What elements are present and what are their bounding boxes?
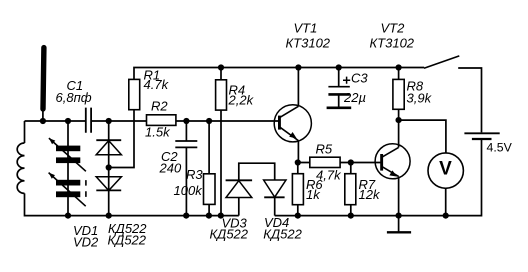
resistor R3	[204, 174, 216, 205]
gang dashed link	[85, 180, 87, 197]
junction dot VT2 base node	[348, 159, 354, 165]
svg-text:3,9k: 3,9k	[407, 91, 433, 106]
wire voltmeter bottom	[445, 188, 447, 215]
svg-text:1k: 1k	[306, 187, 321, 202]
battery GB1 short plate	[472, 138, 492, 140]
svg-text:4.7k: 4.7k	[144, 77, 170, 92]
svg-text:R2: R2	[151, 99, 168, 114]
wire main left	[25, 120, 86, 122]
trimmer C plates bottom pair	[56, 180, 80, 186]
antenna WA1	[40, 48, 46, 109]
trimmer arrowhead 2	[49, 173, 55, 179]
capacitor C3 plates	[328, 86, 349, 88]
transistor VT2 emitter arrow	[389, 170, 397, 176]
wire C3 leads	[338, 68, 340, 107]
capacitor C1 plates	[86, 108, 91, 133]
svg-text:12k: 12k	[359, 187, 381, 202]
resistor R2	[147, 115, 176, 126]
wire trimmer branch	[67, 121, 69, 216]
battery GB1 long plate	[464, 132, 499, 134]
svg-text:КД522: КД522	[210, 227, 249, 242]
svg-text:КД522: КД522	[263, 227, 302, 242]
svg-text:VD2: VD2	[73, 235, 99, 250]
junction dots top rail	[218, 64, 224, 70]
junction dots bottom right rail	[295, 213, 301, 219]
svg-text:C3: C3	[351, 71, 368, 86]
wire R1 jog to diode tap	[109, 110, 134, 168]
diode VD2	[96, 177, 121, 191]
junction dot VT1 emitter node	[295, 159, 301, 165]
ground bar under C3	[327, 106, 352, 109]
svg-text:V: V	[439, 158, 452, 179]
resistor R4	[216, 80, 227, 110]
trimmer C plates top pair	[56, 146, 80, 152]
junction dot diode tap	[106, 164, 112, 170]
wire bottom right rail to battery	[275, 140, 482, 216]
transistor VT1 emitter diagonal	[279, 127, 298, 141]
voltmeter PA1 circle	[428, 153, 463, 188]
trimmer C arrow 1	[49, 138, 86, 171]
svg-text:240: 240	[159, 161, 182, 176]
svg-text:КТ3102: КТ3102	[370, 36, 415, 51]
svg-text:22µ: 22µ	[343, 90, 366, 105]
resistor R1	[129, 79, 140, 109]
svg-text:6,8пф: 6,8пф	[56, 90, 92, 105]
svg-text:VT2: VT2	[381, 20, 406, 35]
wire R4 leads	[220, 68, 222, 216]
transistor VT1 circle	[274, 105, 311, 142]
trimmer C arrow 2	[49, 173, 86, 207]
capacitor C2 plates	[175, 141, 197, 147]
wire VD3 anode lead	[238, 198, 240, 216]
svg-text:VT1: VT1	[294, 20, 318, 35]
wire R7 leads	[350, 163, 352, 216]
wire VD3-VD4 bridge	[239, 163, 275, 180]
transistor VT2 circle	[375, 144, 410, 179]
wire voltmeter top	[399, 120, 446, 153]
diode VD3	[226, 179, 253, 181]
wire VD4 cathode lead	[274, 197, 276, 215]
wire left rail top	[24, 121, 26, 143]
transistor VT1 base bar	[278, 116, 281, 130]
wire VT1 collector	[297, 68, 299, 107]
resistor R7	[345, 174, 356, 205]
svg-text:КД522: КД522	[108, 232, 147, 247]
inductor L1	[17, 143, 24, 193]
svg-text:100k: 100k	[174, 183, 204, 198]
wire diode branch	[108, 121, 110, 216]
wire left rail bottom	[25, 193, 239, 215]
wire VT1 emitter	[297, 141, 299, 163]
wire VT2 collector	[398, 120, 400, 147]
junction dots bottom left rail	[65, 213, 71, 219]
wire R3 leads	[208, 121, 210, 216]
diode VD4	[264, 180, 286, 197]
svg-text:4.5V: 4.5V	[487, 141, 513, 155]
diode VD1	[96, 139, 121, 141]
resistor R6	[292, 174, 303, 205]
wire antenna lead	[42, 109, 44, 121]
plus sign of C3	[343, 77, 350, 84]
ground bar under VT2	[387, 231, 411, 233]
transistor VT1 collector diagonal	[279, 106, 298, 117]
trimmer arrowhead 1	[49, 138, 55, 144]
junction dot R8 bottom node	[396, 117, 402, 123]
ground stub at VT2 emitter	[398, 216, 400, 232]
wire R6 leads	[297, 163, 299, 216]
svg-text:R3: R3	[186, 167, 203, 182]
transistor VT2 emitter diagonal	[382, 166, 399, 176]
resistor R8	[393, 79, 404, 109]
resistor R5	[310, 157, 340, 167]
svg-text:2,2k: 2,2k	[228, 93, 255, 108]
switch SA1 lever	[424, 56, 459, 68]
svg-text:КТ3102: КТ3102	[286, 36, 331, 51]
svg-text:R5: R5	[316, 141, 333, 156]
wire top rail	[134, 68, 424, 80]
junction dots main wire	[40, 118, 46, 124]
wire VT2 emitter	[398, 176, 400, 215]
switch SA1 fixed contact	[458, 68, 481, 132]
transistor VT2 collector diagonal	[382, 147, 399, 157]
transistor VT2 base bar	[380, 154, 383, 171]
svg-text:1.5k: 1.5k	[145, 125, 171, 140]
wire R8 leads	[398, 68, 400, 121]
wire C2 leads	[185, 121, 187, 216]
wire main right to VT1 base	[176, 120, 280, 122]
wire R5 leads	[298, 162, 382, 164]
transistor VT1 emitter arrow	[289, 132, 297, 139]
wire main mid	[92, 120, 147, 122]
